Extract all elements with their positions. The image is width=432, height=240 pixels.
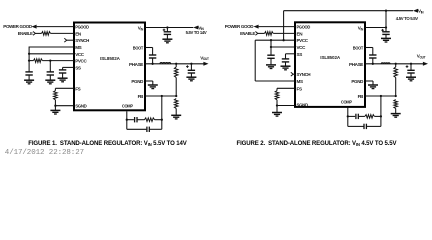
node PVCC/VCC tie junction (figure 2) (270, 39, 272, 41)
capacitor C-SS (figure 2) (282, 58, 289, 60)
node PVCC rail junction (figure 2) (282, 39, 284, 41)
net POWER GOOD label+arrow (figure 1) (3, 24, 36, 29)
wire VIN pin (figure 1) (146, 27, 194, 29)
svg-text:4.5V TO 5.5V: 4.5V TO 5.5V (396, 16, 419, 21)
wire C-SS to ground (figure 1) (62, 73, 64, 78)
capacitor C-COMP2 (figure 1) (146, 127, 148, 132)
wire BOOT pin (figure 1) (146, 47, 153, 49)
label VIN 4.5V TO 5.5V (figure 2) (396, 9, 424, 21)
resistor R-FB-BOT (figure 2) (394, 100, 398, 109)
svg-text:MS: MS (75, 45, 81, 50)
svg-text:POWER GOOD: POWER GOOD (3, 24, 33, 29)
wire C-PVCC to ground (figure 1) (49, 75, 51, 80)
wire PGOOD (figure 2) (259, 26, 295, 28)
svg-text:COMP: COMP (341, 99, 352, 104)
wire PVCC pin (figure 2) (255, 39, 294, 41)
wire C-IN to ground (figure 2) (385, 34, 387, 38)
wire PGND pin (figure 1) (146, 80, 153, 82)
wire COMP stub (figure 1) (126, 111, 128, 129)
svg-text:VOUT: VOUT (417, 54, 426, 60)
resistor R-COMP (figure 1) (145, 118, 155, 122)
wire comp branch2 right (figure 2) (366, 125, 381, 127)
wire FB pin (figure 1) (146, 95, 177, 97)
wire FS drop (figure 2) (276, 88, 278, 90)
ground under C-OUT (figure 1) (186, 76, 196, 78)
ground under C-OUT (figure 2) (406, 76, 416, 78)
svg-text:SS: SS (297, 52, 303, 57)
wire resistor to EN pin (figure 1) (51, 32, 74, 34)
capacitor C-COMP1 (figure 2) (355, 114, 357, 119)
capacitor C-OUT polarity + (figure 1) (186, 66, 189, 68)
wire comp vertical (figure 2) (380, 96, 382, 126)
capacitor C-BOOT (figure 2) (369, 54, 376, 56)
svg-text:VOUT: VOUT (200, 55, 209, 61)
wire SS pin (figure 1) (63, 66, 74, 68)
wire PGND drop (figure 2) (372, 81, 374, 85)
svg-text:FS: FS (297, 86, 302, 91)
node comp branch1 junction (figure 1) (161, 119, 163, 121)
capacitor C-IN (figure 2) (382, 31, 389, 33)
svg-text:PHASE: PHASE (349, 62, 363, 67)
capacitor C-OUT (figure 2) (407, 69, 414, 71)
op-amp / IC U2 ISL8502A (figure 2) (295, 22, 365, 107)
wire FS pin (figure 1) (55, 87, 73, 89)
resistor R-FS (figure 2) (275, 91, 279, 100)
wire C-BOOT to phase (figure 1) (152, 58, 154, 64)
wire SGND pin (figure 1) (55, 105, 73, 107)
svg-text:SGND: SGND (297, 103, 309, 108)
svg-text:ENABLE: ENABLE (240, 31, 255, 36)
net SYNCH input arrow (figure 1) (64, 38, 66, 42)
capacitor C-COMP2 (figure 2) (363, 124, 365, 129)
ground under C-IN (figure 2) (381, 37, 391, 39)
ground under R-FB-BOT (figure 1) (171, 114, 181, 116)
svg-text:MS: MS (297, 79, 303, 84)
wire comp branch2 left (figure 1) (127, 128, 147, 130)
node output cap on vout (figure 2) (410, 63, 412, 65)
wire divider top drop (figure 1) (175, 64, 177, 67)
node COMP branch junction (figure 2) (347, 115, 349, 117)
svg-text:FS: FS (75, 86, 80, 91)
wire C-IN to ground (figure 1) (166, 34, 168, 39)
svg-text:PGND: PGND (351, 79, 364, 84)
wire VCC pin (figure 2) (271, 46, 295, 48)
wire SGND to ground (figure 2) (276, 106, 278, 113)
svg-text:VIN: VIN (418, 9, 424, 15)
U1 pin labels (figure 1) (75, 25, 144, 109)
node divider tap on vout (figure 1) (175, 63, 177, 65)
resistor R-COMP (figure 2) (365, 115, 375, 119)
net VOUT output arrow (figure 2) (423, 62, 428, 66)
ground under C-IN (figure 1) (162, 38, 172, 40)
svg-text:ISL8502A: ISL8502A (100, 56, 120, 62)
svg-text:PHASE: PHASE (129, 62, 143, 67)
wire ENABLE to resistor (figure 2) (258, 32, 265, 34)
wire SYNCH stub (figure 1) (67, 39, 74, 41)
ground SGND (figure 2) (272, 112, 282, 114)
wire R-FS to SGND node (figure 2) (276, 100, 278, 106)
node VIN cap junction (figure 1) (166, 26, 168, 28)
capacitor C-PVCC (figure 1) (47, 71, 54, 73)
wire R-FB-TOP to FB node (figure 2) (395, 78, 397, 97)
node FB divider junction (figure 2) (395, 95, 397, 97)
node FB divider junction (figure 1) (175, 95, 177, 97)
net SYNCH input arrow (figure 2) (291, 72, 293, 76)
node PVCC-rail junction (figure 1) (28, 59, 30, 61)
net ENABLE label+arrow (figure 2) (240, 31, 258, 36)
wire ENABLE to resistor (figure 1) (35, 32, 41, 34)
wire R-FB-BOT to ground (figure 2) (395, 109, 397, 114)
node BOOT cap on phase (figure 1) (151, 63, 153, 65)
svg-text:PGOOD: PGOOD (75, 25, 89, 30)
net VIN input arrow (figure 2) (413, 9, 418, 13)
ground under C-SS (figure 1) (58, 77, 68, 79)
ground under C-SS (figure 2) (281, 65, 291, 67)
wire R-FS to SGND node (figure 1) (54, 100, 56, 106)
svg-text:PVCC: PVCC (75, 59, 87, 64)
wire PVCC cap drop (figure 1) (49, 61, 51, 72)
wire MS pin (figure 2) (255, 80, 294, 82)
net POWER GOOD label+arrow (figure 2) (225, 24, 259, 29)
wire BOOT pin (figure 2) (366, 47, 373, 49)
net VOUT output arrow (figure 1) (203, 62, 208, 66)
capacitor C-COMP1 (figure 1) (134, 117, 136, 122)
node output cap on vout (figure 1) (190, 63, 192, 65)
wire VIN cap drop (figure 1) (166, 28, 168, 32)
wire FS drop (figure 1) (54, 88, 56, 90)
wire PVCC pin to resistor (figure 1) (42, 60, 73, 62)
inductor L1 (figure 1) (160, 62, 171, 63)
svg-text:POWER GOOD: POWER GOOD (225, 24, 255, 29)
wire FS pin (figure 2) (277, 87, 295, 89)
wire PGOOD (figure 1) (37, 26, 74, 28)
wire comp branch1 right (figure 1) (155, 119, 162, 121)
wire R-FB-BOT to ground (figure 1) (175, 109, 177, 116)
svg-text:SYNCH: SYNCH (297, 72, 312, 77)
capacitor C-IN polarity + (figure 1) (163, 29, 166, 31)
resistor R-FB-TOP (figure 2) (394, 67, 398, 78)
ground SGND (figure 1) (50, 109, 60, 111)
wire VIN top rail (figure 2) (284, 10, 413, 12)
ground under C-VCC (figure 1) (24, 79, 34, 81)
wire BOOT drop (figure 1) (152, 48, 154, 56)
wire C-BOOT to phase (figure 2) (372, 58, 374, 64)
wire C-OUT to ground (figure 1) (190, 73, 192, 77)
svg-text:SS: SS (75, 65, 81, 70)
wire PGND pin (figure 2) (366, 80, 374, 82)
svg-text:VCC: VCC (297, 45, 307, 50)
wire comp branch1 mid (figure 2) (358, 115, 365, 117)
capacitor C-IN (figure 1) (164, 31, 171, 33)
svg-text:FIGURE 1. STAND-ALONE REGULAT: FIGURE 1. STAND-ALONE REGULATOR: VIN 5.5… (28, 141, 186, 147)
capacitor C-IN polarity + (figure 2) (381, 29, 384, 31)
wire VCC tie vertical (figure 2) (270, 40, 272, 55)
wire C-OUT drop (figure 1) (190, 64, 192, 71)
wire SS drop (figure 1) (62, 67, 64, 70)
wire C-OUT drop (figure 2) (410, 64, 412, 71)
svg-text:PGOOD: PGOOD (297, 25, 311, 30)
node VCC junction (figure 2) (270, 46, 272, 48)
ground under C-VCC (figure 2) (266, 64, 276, 66)
wire FB pin (figure 2) (366, 95, 396, 97)
resistor R-FS (figure 1) (54, 91, 58, 100)
capacitor C-OUT polarity + (figure 2) (406, 66, 409, 68)
wire PHASE / VOUT rail (figure 1) (146, 63, 205, 65)
wire SGND pin (figure 2) (277, 105, 295, 107)
op-amp / IC U1 ISL8502A (figure 1) (74, 23, 145, 111)
wire comp branch1 left (figure 1) (127, 119, 134, 121)
wire C-SS to ground (figure 2) (285, 62, 287, 66)
node FB comp junction (figure 2) (380, 95, 382, 97)
capacitor C-SS (figure 1) (59, 69, 66, 71)
node VCC rail junction (figure 1) (28, 53, 30, 55)
svg-text:PGND: PGND (131, 79, 144, 84)
wire COMP stub (figure 2) (347, 107, 349, 126)
wire SGND to ground (figure 1) (54, 106, 56, 111)
wire BOOT drop (figure 2) (372, 48, 374, 56)
svg-text:VCC: VCC (75, 52, 85, 57)
wire rail drop to VIN pin (figure 2) (385, 11, 387, 32)
capacitor C-BOOT (figure 1) (149, 54, 156, 56)
wire PVCC to MS drop (figure 2) (254, 40, 256, 81)
resistor R-EN (figure 1) (42, 32, 51, 36)
svg-text:PVCC: PVCC (297, 38, 309, 43)
resistor R-EN (figure 2) (265, 32, 274, 36)
svg-text:BOOT: BOOT (133, 46, 144, 51)
wire C-VCC to ground (figure 2) (270, 58, 272, 65)
ground PGND (figure 2) (368, 84, 378, 86)
wire comp branch1 mid (figure 1) (137, 119, 145, 121)
wire comp branch2 left (figure 2) (348, 125, 364, 127)
node VIN cap junction (figure 2) (385, 26, 387, 28)
node FB comp junction (figure 1) (161, 95, 163, 97)
inductor L2 (figure 2) (381, 63, 390, 64)
net VIN input arrow (figure 1) (193, 26, 198, 30)
node FS/SGND junction (figure 1) (54, 105, 56, 107)
wire comp branch2 right (figure 1) (149, 128, 162, 130)
node FS/SGND junction (figure 2) (276, 104, 278, 106)
node COMP branch junction (figure 1) (126, 119, 128, 121)
node BOOT cap on phase (figure 2) (372, 63, 374, 65)
wire comp branch1 right (figure 2) (374, 115, 381, 117)
capacitor C-VCC (figure 2) (267, 54, 274, 56)
wire MS pin to VCC rail (figure 1) (29, 46, 73, 48)
node rail top junction (figure 2) (385, 10, 387, 12)
svg-text:5.5V TO 14V: 5.5V TO 14V (186, 30, 208, 35)
wire VCC rail vertical (figure 1) (28, 47, 30, 72)
ground under C-PVCC (figure 1) (45, 79, 55, 81)
wire VIN pin (figure 2) (366, 27, 387, 29)
wire PHASE / VOUT rail (figure 2) (366, 63, 425, 65)
wire comp branch1 left (figure 2) (348, 115, 355, 117)
net ENABLE label+arrow (figure 1) (18, 31, 36, 36)
wire VCC pin (figure 1) (29, 53, 73, 55)
wire PGND drop (figure 1) (152, 81, 154, 85)
svg-text:ISL8502A: ISL8502A (320, 55, 340, 61)
wire comp vertical (figure 1) (161, 96, 163, 129)
label VIN 5.5V TO 14V (figure 1) (186, 25, 208, 35)
node PVCC cap junction (figure 1) (49, 59, 51, 61)
wire C-OUT to ground (figure 2) (410, 73, 412, 77)
capacitor C-OUT (figure 1) (188, 69, 195, 71)
ground under R-FB-BOT (figure 2) (391, 113, 401, 115)
resistor R-FB-BOT (figure 1) (174, 99, 178, 109)
wire resistor to VCC rail (figure 1) (29, 60, 33, 62)
node comp branch1 junction (figure 2) (380, 115, 382, 117)
svg-text:SYNCH: SYNCH (75, 38, 90, 43)
svg-text:4/17/2012 22:28:27: 4/17/2012 22:28:27 (5, 149, 84, 157)
wire resistor to EN pin (figure 2) (273, 32, 294, 34)
wire C-VCC to ground (figure 1) (28, 75, 30, 80)
wire R-FB-TOP to FB node (figure 1) (175, 78, 177, 97)
node divider tap on vout (figure 2) (395, 63, 397, 65)
svg-text:FIGURE 2. STAND-ALONE REGULAT: FIGURE 2. STAND-ALONE REGULATOR: VIN 4.5… (237, 141, 397, 147)
wire divider top drop (figure 2) (395, 64, 397, 67)
U2 pin labels (figure 2) (297, 25, 365, 108)
svg-text:ENABLE: ENABLE (18, 31, 33, 36)
svg-text:SGND: SGND (75, 103, 87, 108)
resistor R-FB-TOP (figure 1) (174, 67, 178, 78)
wire SYNCH stub (figure 2) (293, 73, 295, 75)
wire VIN rail drop to PVCC (figure 2) (283, 11, 285, 41)
wire SS drop (figure 2) (285, 54, 287, 59)
capacitor C-VCC (figure 1) (25, 71, 32, 73)
svg-text:COMP: COMP (122, 103, 133, 108)
resistor R-PVCC (figure 1) (33, 59, 42, 63)
wire SS pin (figure 2) (286, 53, 295, 55)
ground PGND (figure 1) (148, 84, 158, 86)
svg-text:BOOT: BOOT (353, 46, 364, 51)
